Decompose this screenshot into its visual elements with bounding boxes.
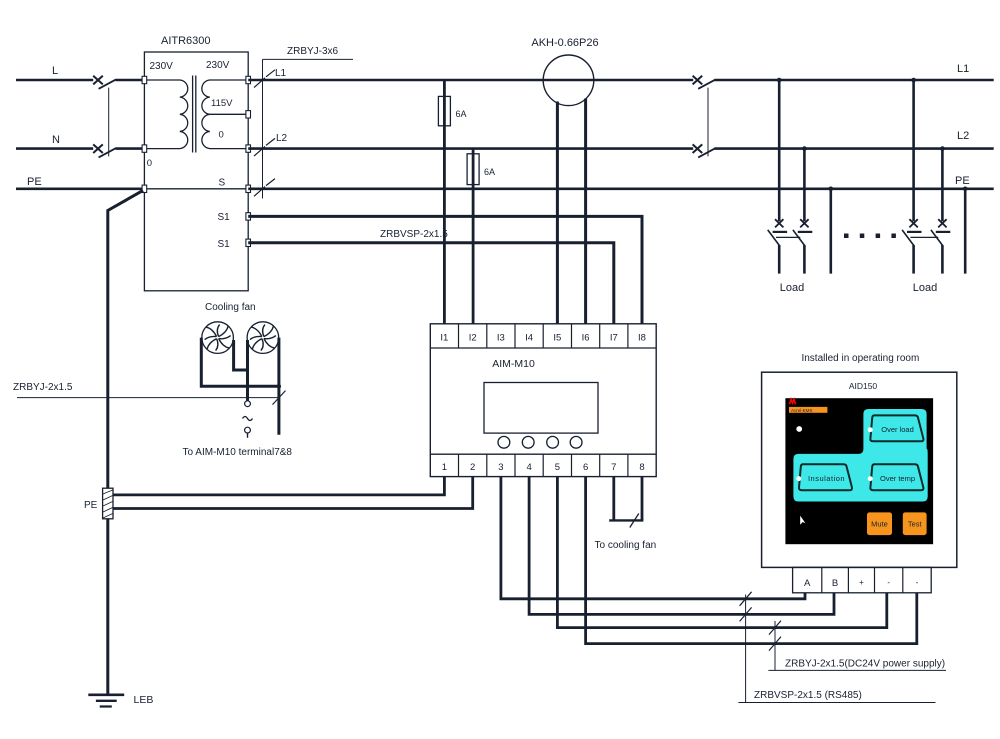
- svg-text:3: 3: [498, 462, 503, 473]
- svg-text:S: S: [219, 178, 226, 189]
- breaker QF4 load group 2 pole 2: [910, 149, 950, 274]
- current transformer AKH-0.66P26: [531, 37, 598, 106]
- transformer terminal squares: [142, 76, 250, 246]
- wire terminal 1 to PE block: [113, 477, 444, 495]
- svg-text:-: -: [887, 578, 890, 587]
- svg-text:PE: PE: [955, 175, 970, 187]
- U2 button Over load: [868, 415, 924, 441]
- svg-text:I8: I8: [638, 333, 646, 344]
- svg-text:ZRBYJ-2x1.5: ZRBYJ-2x1.5: [13, 382, 73, 393]
- svg-text:S1: S1: [218, 239, 231, 250]
- U2 screen: [785, 398, 933, 544]
- wire CT lead to I5: [556, 102, 559, 324]
- svg-text:I3: I3: [497, 333, 505, 344]
- U1 buttons: [498, 436, 582, 448]
- U2 cursor: [800, 516, 805, 525]
- cooling fan M2: [247, 322, 279, 354]
- breaker QF4 load group 2 pole 1: [902, 80, 921, 274]
- svg-text:B: B: [832, 578, 838, 589]
- wire terminal 4 to AID B: [529, 477, 834, 615]
- svg-text:I7: I7: [610, 333, 618, 344]
- svg-text:7: 7: [611, 462, 616, 473]
- svg-text:I5: I5: [553, 333, 561, 344]
- svg-text:L2: L2: [957, 130, 969, 142]
- svg-text:-: -: [916, 578, 919, 587]
- svg-text:6A: 6A: [456, 109, 467, 119]
- cable ZRBYJ-2x1.5 leader: [13, 382, 286, 405]
- svg-text:Test: Test: [908, 520, 923, 529]
- U2 button Mute: [867, 512, 892, 535]
- transformer screen S line: [144, 178, 248, 189]
- svg-text:Over load: Over load: [881, 425, 914, 434]
- wire L input bus: [16, 79, 144, 82]
- svg-text:Installed in operating room: Installed in operating room: [801, 353, 919, 364]
- transformer secondary winding 230V/115V/0: [202, 60, 248, 149]
- wire fan bracket: [201, 338, 281, 435]
- insulation monitor U1 AIM-M10 box: [430, 324, 656, 477]
- svg-text:+: +: [859, 578, 864, 587]
- display panel U2 AID150 box: [762, 372, 957, 567]
- wire terminal 3 to AID A: [501, 477, 805, 599]
- pin labels I1-I8: [440, 333, 646, 344]
- U2 cyan panel: [793, 409, 927, 502]
- breaker QF1 input 2-pole: [93, 76, 116, 158]
- cable ZRBYJ-2x1.5 24V leader: [768, 621, 946, 671]
- U1 LCD display: [484, 383, 598, 434]
- wire PE bus right: [248, 188, 994, 191]
- wire N input bus: [16, 147, 144, 150]
- svg-text:N: N: [52, 134, 60, 146]
- U2 button Insulation: [796, 464, 852, 490]
- breaker QF2 output 2-pole: [693, 76, 716, 158]
- svg-text:L1: L1: [957, 63, 969, 75]
- svg-text:A: A: [804, 578, 811, 589]
- svg-text:ZRBYJ-3x6: ZRBYJ-3x6: [287, 46, 339, 57]
- wire L2 bus: [248, 147, 994, 150]
- svg-text:I6: I6: [582, 333, 590, 344]
- transformer T1 AITR6300 box: [144, 52, 248, 291]
- svg-text:ZRBVSP-2x1.5 (RS485): ZRBVSP-2x1.5 (RS485): [754, 690, 862, 701]
- fuse FU1 6A with wire to I1: [438, 80, 466, 324]
- svg-text:230V: 230V: [206, 60, 230, 71]
- pin labels 1-8: [442, 462, 645, 473]
- svg-text:2: 2: [470, 462, 475, 473]
- cooling fan M1: [202, 322, 234, 354]
- svg-text:Load: Load: [913, 282, 937, 294]
- fan plug connector: [243, 401, 253, 438]
- svg-text:8: 8: [639, 462, 644, 473]
- svg-text:Over temp: Over temp: [880, 474, 915, 483]
- svg-text:I1: I1: [440, 333, 448, 344]
- svg-text:Acrel-EMS: Acrel-EMS: [791, 408, 813, 413]
- U2 orange logo bar: [789, 407, 827, 413]
- svg-text:I2: I2: [469, 333, 477, 344]
- wire PE drop load 1: [829, 189, 832, 274]
- svg-text:Mute: Mute: [871, 520, 888, 529]
- breaker QF3 load group 1 pole 2: [776, 149, 812, 274]
- ground LEB: [88, 695, 124, 707]
- fuse FU2 6A with wire to I2: [467, 149, 495, 324]
- svg-text:Cooling fan: Cooling fan: [205, 302, 256, 313]
- wire terminals 7 and 8 to cooling fan: [609, 477, 643, 528]
- breaker QF3 load group 1 pole 1: [768, 80, 787, 274]
- svg-text:AITR6300: AITR6300: [161, 35, 211, 47]
- svg-text:1: 1: [442, 462, 447, 473]
- svg-text:230V: 230V: [150, 61, 174, 72]
- U2 terminal strip: [793, 567, 932, 592]
- svg-text:6A: 6A: [484, 167, 495, 177]
- cable ZRBYJ-3x6 leader: [254, 46, 353, 199]
- wire terminal 6 to AID minus: [586, 477, 917, 644]
- transformer primary winding 230V: [144, 61, 187, 169]
- svg-text:To AIM-M10 terminal7&8: To AIM-M10 terminal7&8: [183, 447, 293, 458]
- svg-text:0: 0: [147, 158, 152, 169]
- svg-text:L1: L1: [275, 68, 287, 79]
- wire terminal 2 to PE block: [113, 477, 473, 509]
- svg-text:I4: I4: [525, 333, 533, 344]
- wire PE drop conductor: [108, 190, 143, 694]
- svg-text:L: L: [52, 65, 58, 77]
- svg-text:AID150: AID150: [849, 381, 878, 391]
- svg-text:PE: PE: [27, 176, 42, 188]
- wire terminal 5 to AID plus: [557, 477, 886, 628]
- svg-text:ZRBVSP-2x1.5: ZRBVSP-2x1.5: [380, 229, 448, 240]
- svg-text:S1: S1: [218, 212, 231, 223]
- U2 button Over temp: [868, 464, 924, 490]
- svg-text:PE: PE: [84, 500, 98, 511]
- svg-text:6: 6: [583, 462, 588, 473]
- svg-text:ZRBYJ-2x1.5(DC24V power supply: ZRBYJ-2x1.5(DC24V power supply): [785, 659, 945, 670]
- U2 alarm icon: [796, 426, 802, 432]
- node junction dots on buses: [777, 78, 968, 191]
- wire S1 upper to I8: [248, 216, 642, 323]
- svg-text:5: 5: [555, 462, 560, 473]
- transformer core: [193, 76, 196, 153]
- wire S1 lower to I7: [248, 243, 614, 324]
- svg-text:AKH-0.66P26: AKH-0.66P26: [531, 37, 598, 49]
- cable ZRBVSP-2x1.5 RS485 leader: [738, 592, 935, 703]
- wire PE drop load 2: [964, 189, 967, 274]
- U2 red logo mark: [790, 399, 796, 404]
- wire PE input bus: [16, 188, 144, 191]
- svg-text:4: 4: [526, 462, 531, 473]
- U2 button Test: [903, 512, 927, 535]
- svg-text:115V: 115V: [211, 98, 233, 109]
- svg-text:L2: L2: [276, 133, 288, 144]
- svg-text:AIM-M10: AIM-M10: [492, 358, 535, 370]
- svg-text:LEB: LEB: [134, 694, 154, 706]
- wire CT lead to I6: [584, 99, 587, 324]
- transformer S1 terminal labels: [218, 212, 231, 250]
- wire L1 bus: [248, 79, 994, 82]
- node dots ellipsis: [844, 234, 896, 239]
- PE terminal block: [103, 488, 113, 519]
- svg-text:Insulation: Insulation: [808, 474, 845, 483]
- svg-text:To cooling fan: To cooling fan: [595, 540, 657, 551]
- svg-text:0: 0: [219, 130, 224, 141]
- svg-text:Load: Load: [780, 282, 804, 294]
